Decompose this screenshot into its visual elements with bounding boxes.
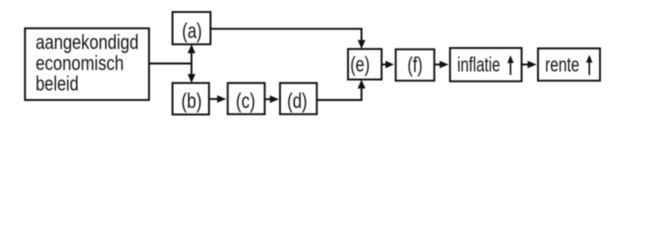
box (c) [228, 83, 265, 114]
arrowhead down into (b) [188, 74, 196, 83]
svg-text:(c): (c) [236, 90, 255, 113]
wire: (f) to inflatie shaft [434, 64, 442, 66]
svg-text:rente: rente [545, 54, 579, 76]
wire: inflatie to rente shaft [522, 64, 530, 66]
svg-text:economisch: economisch [36, 53, 124, 75]
box: aangekondigd economisch beleid [25, 28, 149, 100]
svg-text:(d): (d) [287, 90, 307, 113]
wire: (b) to (c) shaft [209, 98, 218, 100]
box (a) [173, 12, 211, 44]
wire: big box to vertical connector [149, 63, 192, 65]
arrowhead up into (e) bottom [358, 80, 366, 89]
svg-text:beleid: beleid [36, 74, 79, 96]
svg-text:(b): (b) [181, 90, 202, 113]
arrowhead (b)->(c) [217, 95, 226, 103]
wire: (a) right to above (e) [211, 29, 362, 43]
wire: (e) to (f) shaft [382, 64, 388, 66]
arrowhead (f)->inflatie [440, 61, 449, 69]
arrowhead inflatie->rente [528, 61, 537, 69]
wire: (d) right to below (e) [317, 86, 362, 100]
box (b) [173, 83, 210, 115]
box rente [538, 48, 600, 80]
svg-text:(f): (f) [407, 54, 422, 77]
svg-text:(e): (e) [350, 54, 370, 77]
box (d) [280, 83, 317, 114]
svg-text:(a): (a) [182, 20, 202, 43]
box inflatie [450, 48, 522, 81]
arrowhead up into (a) [188, 44, 196, 53]
arrowhead (e)->(f) [386, 61, 395, 69]
wire: (c) to (d) shaft [265, 98, 271, 100]
svg-text:aangekondigd: aangekondigd [36, 32, 139, 54]
up-arrow glyph in rente box [586, 55, 592, 75]
wire: vertical double-arrow shaft between (a) and (b) [191, 50, 193, 78]
box (f) [396, 49, 435, 80]
arrowhead down into (e) top [358, 40, 366, 49]
box (e) [348, 49, 382, 80]
svg-text:inflatie: inflatie [457, 54, 500, 76]
up-arrow glyph in inflatie box [507, 55, 513, 75]
arrowhead (c)->(d) [270, 95, 279, 103]
